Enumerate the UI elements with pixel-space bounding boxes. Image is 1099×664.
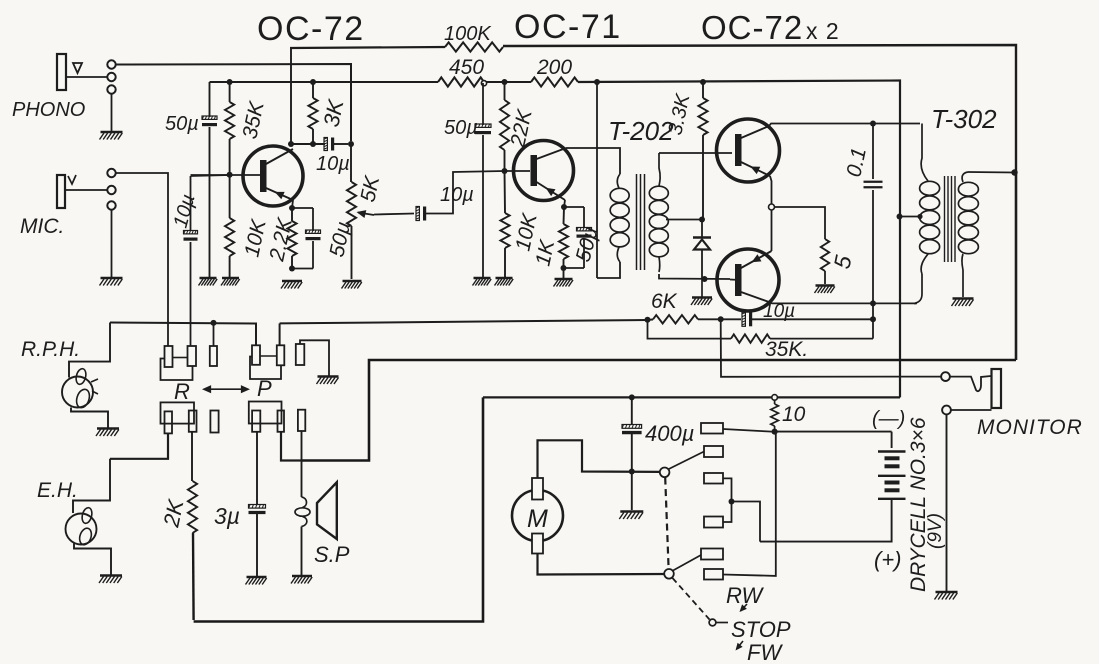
switch P-up link [260, 355, 277, 357]
resistor 5 ohm common emitter [821, 239, 829, 271]
wire right-side vertical to speaker loop [1015, 173, 1018, 360]
switch contact R-low-right [189, 411, 197, 432]
Q4 collector slant [741, 292, 769, 302]
ground 5 ohm [816, 284, 835, 286]
switch contact extra (column3) [210, 346, 217, 366]
capacitor 400u [631, 397, 633, 424]
resistor 35K parallel [648, 320, 732, 339]
wire R-low-left to E.H. line [110, 433, 168, 458]
node 0.1 bottom / collector [870, 300, 876, 306]
switch contact bank 6 [704, 569, 723, 580]
transformer T-302 primary [921, 124, 928, 182]
wire battery bottom lead [760, 500, 892, 542]
jack MONITOR tip squiggle [950, 376, 991, 391]
wire emitter to node [292, 200, 293, 208]
switch contact bank 3 [704, 473, 723, 484]
wire base line first stage [191, 174, 261, 176]
ground 5K [343, 280, 362, 282]
node T-302 secondary top junction [1011, 169, 1017, 175]
ground PHONO [101, 131, 123, 133]
switch contact R-low-single [210, 411, 218, 433]
resistor 6K [648, 319, 654, 321]
svg-text:P: P [257, 376, 272, 401]
svg-text:450: 450 [449, 56, 484, 79]
wire speaker lead [301, 431, 303, 497]
svg-text:50µ: 50µ [444, 117, 478, 139]
svg-text:(9V): (9V) [925, 513, 946, 549]
ground 10K [222, 277, 239, 279]
ground T-302 secondary [953, 297, 974, 299]
wire P-low-right lead [281, 432, 301, 461]
Q4 emitter slant (to common) [741, 251, 772, 268]
transformer T-202 secondary winding [659, 153, 660, 186]
wire R.P.H. lead [69, 323, 110, 378]
wire R.P.H. to ground [71, 408, 108, 428]
transformer T-302 core [944, 176, 946, 262]
wire battery top lead [891, 432, 893, 448]
capacitor 50u decoupling (450/200 junction) [482, 83, 484, 125]
node 6K left [645, 317, 651, 323]
wire MIC sleeve to ground [111, 210, 113, 277]
resistor 450 (rail dropper) [438, 77, 484, 86]
wire wiper upper to contact 2 [669, 452, 704, 470]
jack MONITOR upper contact circle [941, 372, 950, 381]
wire battery minus line [775, 431, 892, 433]
arrow RW [741, 604, 748, 611]
transistor Q4 OC-72 lower output [717, 249, 779, 311]
svg-text:S.P: S.P [314, 542, 350, 567]
resistor 3.3K bias [702, 82, 704, 98]
wire emitter common to 5 ohm [775, 207, 826, 239]
switch wiper upper (motor switch) [660, 468, 670, 478]
svg-text:DRYCELL NO.3×6: DRYCELL NO.3×6 [907, 417, 930, 592]
wire E.H. lead [73, 459, 110, 513]
capacitor 10u coupling to OC-71 base [374, 214, 414, 215]
switch contact P-low-left [252, 411, 260, 432]
capacitor 0.1 feedback [872, 124, 874, 180]
wire contact6 to battery minus node [723, 434, 776, 576]
ground 1K [555, 278, 573, 280]
switch contact P-up-single [296, 344, 305, 365]
switch contact R-up-left [165, 346, 173, 367]
node OC-71 base [502, 168, 508, 174]
resistor 1K emitter OC-71 [563, 207, 566, 224]
wire speaker loop top right to switch P [301, 360, 1016, 461]
switch R-up bridge [161, 359, 193, 381]
node 3.3K top [700, 79, 706, 85]
node 1K bottom [561, 265, 567, 271]
ground MONITOR [936, 591, 958, 593]
wire OC-71 collector to T-202 primary [566, 148, 620, 174]
switch contact P-up-right [277, 345, 285, 365]
svg-text:R: R [174, 379, 190, 404]
svg-text:MIC.: MIC. [20, 215, 64, 238]
transistor Q1 OC-72 first stage [243, 146, 303, 206]
wiper to STOP dashed [673, 578, 710, 620]
svg-text:(—): (—) [872, 408, 905, 430]
wire Q4 collector line to T-302 primary bottom [769, 302, 916, 303]
svg-text:10: 10 [782, 403, 806, 426]
svg-text:R.P.H.: R.P.H. [21, 338, 80, 361]
node diode/base junction [702, 276, 708, 282]
wire single contact stub [213, 323, 215, 346]
wire top rail right segment to right-side drop [503, 45, 1016, 173]
arrow R-P [206, 388, 246, 390]
capacitor 50u rail filter [209, 82, 211, 117]
ground R.P.H. [97, 427, 119, 429]
wire 6K to 10u cap [698, 318, 741, 320]
resistor 10K (bias lower) [229, 175, 231, 218]
wire P-up-single to ground [300, 340, 329, 375]
svg-text:(+): (+) [874, 547, 902, 572]
node 22K top [502, 79, 508, 85]
switch contact P-up-left [252, 345, 260, 365]
switch contact bank 2 [704, 446, 723, 457]
svg-text:200: 200 [536, 56, 572, 79]
wire speaker to ground [301, 527, 303, 576]
wire 2K to bottom loop [192, 533, 195, 620]
node single contact top [211, 320, 217, 326]
svg-text:M: M [527, 505, 548, 533]
wire switch line to 6K node [280, 320, 648, 323]
ground 400u [620, 510, 643, 512]
node 400u top [629, 394, 635, 400]
wire Q3 emitter down to common node [770, 176, 772, 204]
jack MONITOR body [992, 369, 1002, 408]
wire tone right down to 35K [872, 319, 874, 338]
switch contact P-low-single [298, 410, 305, 431]
wire MONITOR lower contact to body [951, 409, 992, 411]
wiper arrow 5K [358, 213, 374, 216]
wire bottom loop (heavy) [194, 397, 483, 621]
node 5K pot top [348, 141, 354, 147]
wire rail right segment to supply drop [578, 81, 900, 398]
ground E.H. [100, 574, 122, 576]
resistor 35K (bias upper) [229, 82, 231, 102]
motor brush top [532, 478, 543, 500]
ground 10K OC-71 [496, 277, 513, 279]
node T-202 primary return [594, 79, 600, 85]
node base first OC-72 [227, 172, 233, 178]
transformer T-202 core [636, 174, 638, 270]
jack MIC tip contact [68, 175, 76, 184]
battery B1 DRYCELL cells [878, 450, 906, 452]
node 0.1 cap top [870, 121, 876, 127]
ground P-up-single [318, 375, 339, 377]
node 3K top [310, 79, 316, 85]
switch R-up link [173, 357, 188, 359]
wire rail mid segment [484, 81, 531, 83]
switch wiper lower [664, 569, 674, 579]
resistor 3K (collector load) [312, 82, 314, 98]
wire STOP dash [717, 622, 729, 624]
wire Q4 base line [730, 279, 741, 282]
svg-text:400µ: 400µ [645, 421, 694, 446]
svg-text:10µ: 10µ [763, 301, 795, 322]
resistor 2K [191, 432, 193, 481]
resistor 10K (OC-71 bias lower) [504, 171, 507, 213]
capacitor 10u input (switch to base) [190, 176, 192, 231]
switch contact R-up-right [188, 346, 197, 366]
wire top rail left segment (collector feedback) [290, 47, 445, 48]
switch contact R-low-left [165, 411, 173, 433]
wire T-302 centre tap [900, 216, 923, 218]
node battery minus junction [772, 429, 778, 435]
svg-text:x 2: x 2 [806, 18, 840, 44]
svg-text:FW: FW [747, 640, 783, 664]
capacitor 10u coupling to 5K pot [324, 138, 327, 151]
motor brush bottom [532, 534, 543, 554]
svg-text:RW: RW [726, 583, 764, 608]
switch R-low bracket box [161, 402, 195, 423]
transformer T-202 primary winding [617, 174, 620, 188]
wire T-202 primary return to rail [596, 82, 598, 278]
node 10 ohm top (open) [772, 395, 778, 401]
svg-text:STOP: STOP [731, 617, 791, 642]
svg-text:OC-72: OC-72 [257, 10, 365, 48]
node collector/3K/10u junction [288, 141, 294, 147]
transformer T-302 secondary [962, 172, 968, 182]
node monitor tap [718, 316, 724, 322]
resistor 100K (feedback) [445, 42, 503, 51]
wire head line to switch R [110, 323, 256, 346]
jack MIC contact circles [107, 169, 115, 177]
ground MIC [101, 277, 123, 279]
wire wiper lower to contact 5 [673, 555, 701, 571]
diode bias compensation [701, 220, 703, 238]
ground S.P [292, 575, 312, 577]
wire OC-71 emitter to node [564, 200, 565, 207]
wire T-302 secondary top to loop [968, 171, 1015, 174]
wire motor bottom lead [538, 554, 665, 575]
ground diode node stub [701, 279, 703, 297]
wire T-202 secondary top to upper OC-72 base [659, 152, 732, 154]
svg-text:50µ: 50µ [165, 113, 199, 135]
speaker S.P horn [317, 482, 337, 539]
capacitor 10u series [742, 312, 745, 326]
wire motor top lead [538, 440, 660, 478]
jack PHONO body [57, 54, 66, 90]
capacitor 50u emitter bypass OC-71 [564, 206, 584, 208]
wire collector vertical from top rail [290, 48, 292, 146]
wiper link dashed [665, 478, 668, 569]
svg-text:PHONO: PHONO [12, 99, 85, 121]
switch contact bank 1 (to battery minus) [701, 423, 723, 434]
svg-text:MONITOR: MONITOR [977, 416, 1083, 439]
node 2.2K bottom [289, 266, 295, 272]
wire T-202 centre tap to diode node [666, 219, 702, 221]
wire supply line y397 [483, 396, 900, 398]
svg-text:OC-71: OC-71 [514, 8, 622, 46]
arrow FW [737, 641, 744, 649]
wire 0.1 to tone node [872, 303, 874, 319]
node emitter Q1 [289, 205, 295, 211]
speaker S.P voice coil [302, 497, 307, 508]
head E.H. (erase head) [66, 514, 97, 545]
switch contact bank 5 [701, 549, 723, 560]
wire P-up-right to tone line [279, 323, 281, 345]
wire Q3 collector to T-302 primary top [769, 124, 920, 127]
node emitter common (open) [769, 204, 775, 210]
wire contact1 to battery line [723, 429, 760, 431]
capacitor 50u emitter bypass [292, 207, 313, 209]
ground 3u [247, 576, 267, 578]
node tone right [870, 316, 876, 322]
svg-text:35K.: 35K. [765, 338, 808, 361]
svg-text:E.H.: E.H. [37, 479, 78, 502]
wire collector node to coupling cap [291, 143, 325, 145]
wire E.H. to ground [74, 544, 111, 575]
wire PHONO top contact line to 5K pot drop [116, 64, 351, 141]
ground 2.2K [282, 280, 302, 282]
svg-text:T-302: T-302 [931, 104, 997, 134]
wire MONITOR to ground [946, 415, 948, 592]
svg-text:3µ: 3µ [214, 503, 240, 529]
svg-text:10µ: 10µ [440, 184, 474, 206]
wire PHONO sleeve to ground [111, 94, 113, 131]
switch P-up bridge [250, 357, 281, 380]
wire monitor feed [721, 319, 941, 377]
svg-text:100K: 100K [444, 23, 492, 45]
wire MIC middle contact to body [65, 189, 107, 191]
node 35K top [227, 79, 233, 85]
svg-text:10µ: 10µ [316, 153, 350, 175]
switch P-low bracket box [249, 402, 282, 424]
resistor 200 (rail dropper) [531, 77, 578, 86]
wire base node into OC-71 [505, 170, 531, 172]
switch contact bank 4 [704, 517, 723, 528]
potentiometer 5K volume [350, 144, 352, 182]
ground 50u filter [200, 277, 217, 279]
resistor 22K (OC-71 bias upper) [504, 82, 506, 100]
resistor 10 ohm [774, 400, 776, 404]
wire PHONO middle contact to body [66, 76, 107, 78]
wire contact3/4 link [723, 478, 732, 522]
wire MIC top contact to switch R [116, 173, 168, 346]
switch contact P-low-right [278, 411, 285, 432]
node 10 ohm bottom [772, 429, 778, 435]
svg-text:6K: 6K [651, 290, 678, 313]
transistor Q2 OC-71 [514, 141, 574, 201]
node T-302 centre tap junction [897, 214, 903, 220]
node contact link [729, 499, 735, 505]
node emitter OC-71 [561, 204, 567, 210]
jack MIC body [57, 175, 65, 208]
svg-text:OC-72: OC-72 [701, 9, 803, 46]
jack MONITOR lower contact circle [942, 406, 951, 415]
jack PHONO tip contact triangle [73, 63, 82, 73]
node 3K bottom [310, 141, 316, 147]
wire supply rail y82 left segment [210, 81, 439, 83]
motor M [512, 490, 563, 541]
capacitor 3u [256, 432, 258, 504]
node 450/200 junction terminal [481, 81, 486, 86]
wire link to battery plus riser [732, 502, 761, 542]
jack PHONO contact circles [107, 60, 115, 68]
head R.P.H. (record/playback head) [62, 377, 93, 408]
node motor line junction [629, 469, 635, 475]
resistor 2.2K emitter [291, 208, 293, 221]
node centre tap / diode junction [699, 217, 705, 223]
transistor Q3 OC-72 upper output [717, 119, 780, 182]
wire common node to lower emitter [771, 210, 773, 251]
ground 50u decoupling [474, 277, 491, 279]
switch STOP knob circle [709, 619, 716, 626]
